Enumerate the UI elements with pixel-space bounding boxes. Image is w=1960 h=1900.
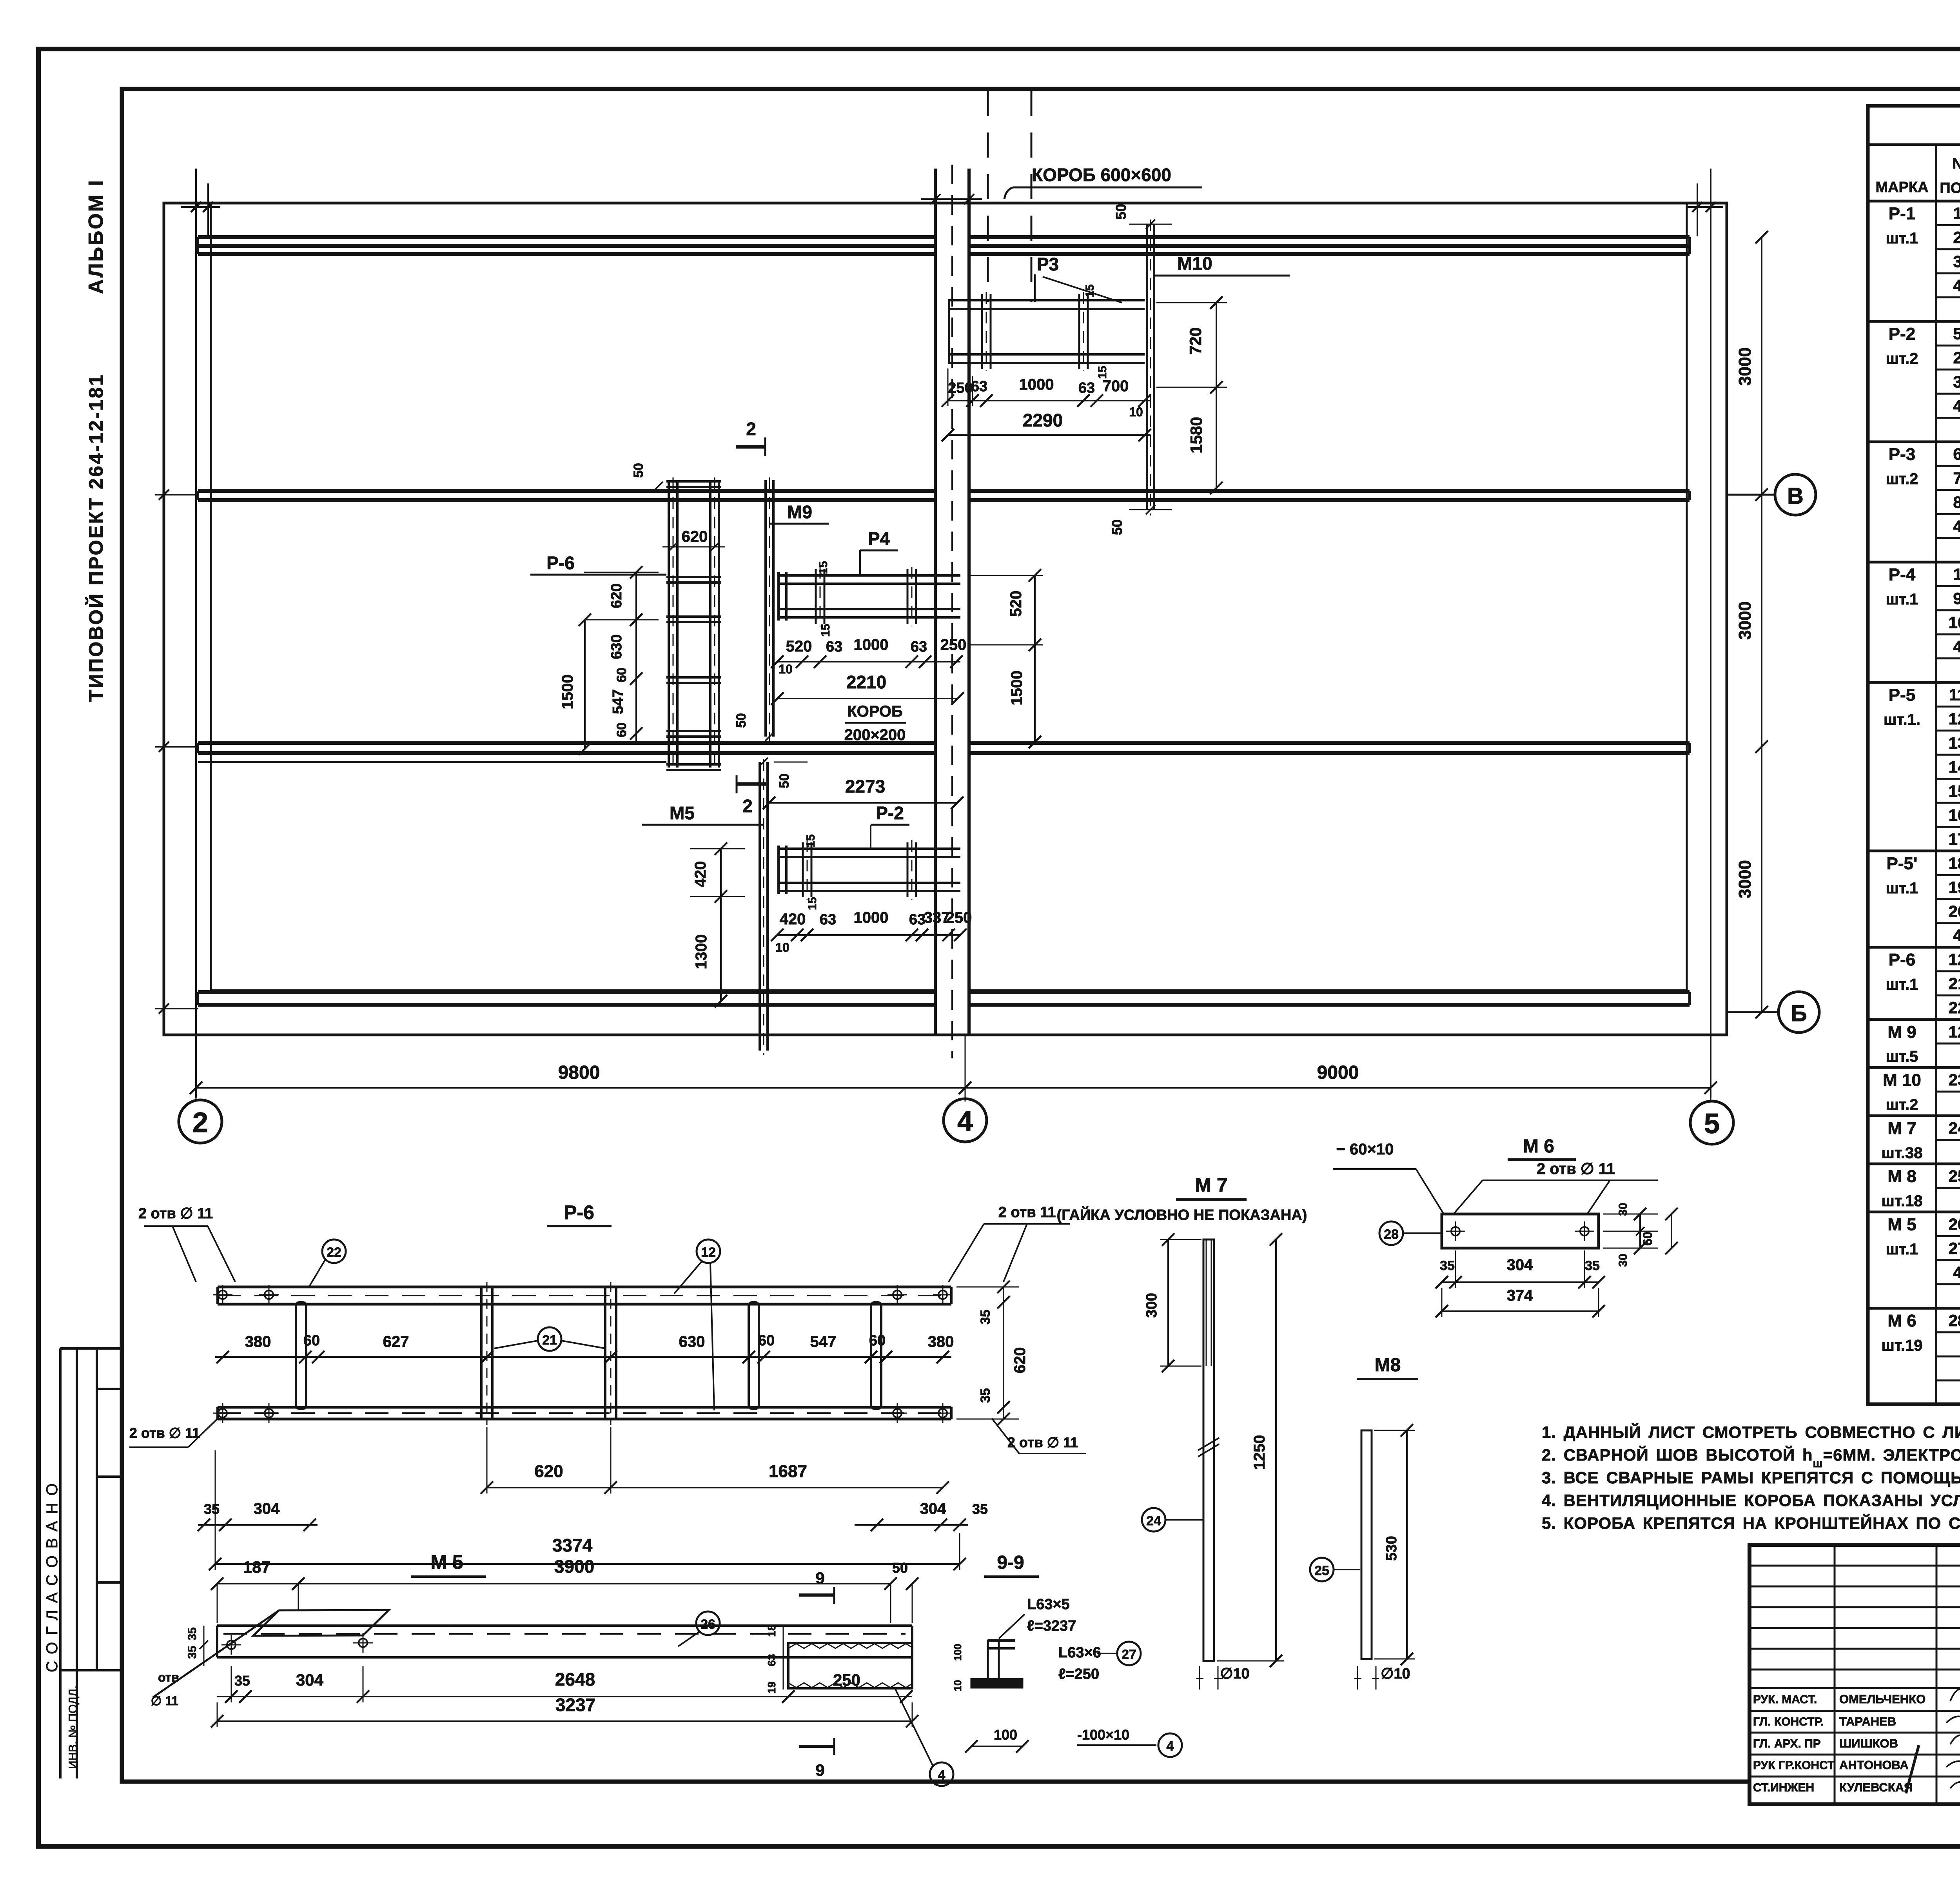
detail M7 rod — [1203, 1239, 1214, 1661]
svg-text:28: 28 — [1384, 1227, 1399, 1242]
svg-text:547: 547 — [610, 689, 626, 714]
frame R3 top chord — [948, 300, 1145, 309]
section 9-9 title — [984, 1552, 1039, 1577]
svg-text:М 6: М 6 — [1887, 1311, 1916, 1330]
svg-text:720: 720 — [1186, 327, 1205, 355]
svg-text:630: 630 — [608, 634, 625, 659]
column grid 4 — [921, 165, 982, 1058]
svg-text:5: 5 — [1953, 325, 1960, 343]
svg-text:250: 250 — [833, 1671, 860, 1689]
svg-text:Б: Б — [1791, 1001, 1807, 1026]
label korob 200x200 — [844, 703, 906, 744]
svg-text:17: 17 — [1949, 830, 1960, 848]
detail R-6 top chord — [218, 1287, 951, 1304]
frame R4 top chord — [777, 575, 960, 584]
R-2 left dims 420 1300 — [690, 842, 745, 1007]
svg-text:304: 304 — [296, 1671, 324, 1689]
svg-text:3900: 3900 — [554, 1556, 594, 1577]
svg-text:Р-6: Р-6 — [546, 553, 575, 573]
svg-text:4. ВЕНТИЛЯЦИОННЫЕ КОРОБА: 4. ВЕНТИЛЯЦИОННЫЕ КОРОБА ПОКАЗАНЫ УСЛОВН… — [1542, 1491, 1960, 1510]
svg-text:РУК ГР.КОНСТ: РУК ГР.КОНСТ — [1753, 1759, 1835, 1772]
svg-text:3237: 3237 — [555, 1695, 595, 1715]
svg-text:9: 9 — [815, 1569, 824, 1587]
svg-text:М8: М8 — [1375, 1355, 1401, 1376]
margin text: soglasovano — [44, 1476, 61, 1672]
svg-text:420: 420 — [692, 861, 709, 887]
svg-text:3: 3 — [1953, 252, 1960, 271]
svg-text:М 9: М 9 — [1887, 1022, 1916, 1042]
detail M5 left dims 35 35 — [186, 1626, 208, 1666]
svg-text:ОМЕЛЬЧЕНКО: ОМЕЛЬЧЕНКО — [1839, 1692, 1926, 1706]
svg-text:35: 35 — [204, 1501, 220, 1517]
label R-6 in plan — [530, 553, 666, 575]
svg-text:380: 380 — [928, 1333, 954, 1350]
detail M6 circle 28 — [1379, 1221, 1442, 1245]
dim 50 top of M5 — [759, 758, 808, 788]
svg-text:250: 250 — [948, 380, 973, 396]
svg-text:10: 10 — [952, 1680, 964, 1691]
svg-text:10: 10 — [1949, 613, 1960, 632]
margin text: inv no podl — [67, 1686, 80, 1769]
svg-text:КОРОБ 600×600: КОРОБ 600×600 — [1032, 165, 1171, 185]
svg-text:50: 50 — [777, 773, 792, 788]
tie M10 vertical — [1147, 220, 1154, 515]
detail R-6 right dims 35 620 35 — [956, 1281, 1029, 1425]
svg-text:4: 4 — [1953, 397, 1960, 415]
svg-text:Р-2: Р-2 — [876, 803, 904, 823]
svg-text:12: 12 — [1949, 950, 1960, 969]
detail M7 note gaika — [1057, 1206, 1307, 1223]
frame R-2 post 2 — [907, 840, 916, 900]
svg-text:63: 63 — [911, 639, 927, 655]
R-6 left dim chain — [584, 566, 659, 745]
svg-text:1500: 1500 — [559, 675, 576, 710]
detail M5 hole label otv 11 — [151, 1670, 179, 1708]
svg-text:547: 547 — [810, 1333, 837, 1350]
tie M5 vertical — [760, 759, 768, 1055]
svg-text:1000: 1000 — [854, 636, 889, 653]
svg-text:15: 15 — [817, 561, 830, 574]
svg-text:− 60×10: − 60×10 — [1336, 1141, 1394, 1158]
svg-text:-100×10: -100×10 — [1077, 1727, 1129, 1743]
svg-text:13: 13 — [1949, 734, 1960, 752]
label R-2 — [871, 803, 909, 849]
margin text: typical project 264-12-181 — [85, 373, 107, 702]
plan inner wall line right — [1686, 203, 1688, 990]
svg-text:27: 27 — [1949, 1239, 1960, 1258]
spec table header — [1868, 145, 1960, 1404]
margin signature strip table — [60, 1348, 122, 1778]
detail M8 diameter label — [1354, 1666, 1410, 1689]
detail R-6 bottom chord — [218, 1407, 951, 1419]
margin text: album I — [85, 179, 107, 294]
svg-text:25: 25 — [1949, 1167, 1960, 1185]
svg-text:50: 50 — [1109, 519, 1125, 535]
svg-text:5: 5 — [1704, 1108, 1720, 1140]
svg-text:Р-6: Р-6 — [1889, 950, 1915, 969]
svg-text:9000: 9000 — [1317, 1062, 1359, 1083]
svg-text:12: 12 — [1949, 710, 1960, 728]
svg-text:3000: 3000 — [1735, 347, 1755, 386]
svg-text:4: 4 — [1167, 1739, 1174, 1754]
svg-text:100: 100 — [952, 1644, 964, 1660]
svg-text:4: 4 — [938, 1768, 946, 1783]
frame R-2 post 1 — [803, 840, 811, 900]
svg-text:15: 15 — [1096, 366, 1109, 379]
detail M5 bottom dims 35 304 2648 250 — [217, 1666, 913, 1703]
frame R3 left end cap — [948, 300, 950, 363]
svg-text:26: 26 — [701, 1617, 715, 1632]
svg-text:4: 4 — [1953, 926, 1960, 945]
svg-text:М 7: М 7 — [1195, 1174, 1227, 1196]
svg-text:3. ВСЕ СВАРНЫЕ РАМЫ КРЕП: 3. ВСЕ СВАРНЫЕ РАМЫ КРЕПЯТСЯ С ПОМОЩЬЮ Т… — [1542, 1468, 1960, 1487]
svg-text:шт.5: шт.5 — [1886, 1048, 1918, 1065]
svg-text:21: 21 — [1949, 974, 1960, 993]
svg-text:12: 12 — [1949, 1022, 1960, 1041]
tie M9 vertical — [766, 477, 773, 741]
svg-text:9: 9 — [815, 1761, 824, 1779]
detail M7 break marks — [1198, 1438, 1219, 1457]
svg-text:520: 520 — [1007, 591, 1025, 617]
svg-text:4: 4 — [957, 1106, 973, 1137]
svg-text:35: 35 — [186, 1646, 199, 1659]
svg-text:2648: 2648 — [555, 1669, 595, 1689]
svg-text:Р-5: Р-5 — [1889, 686, 1915, 705]
beam row mid extra lower edge left part — [198, 761, 666, 763]
svg-text:ШИШКОВ: ШИШКОВ — [1839, 1737, 1898, 1750]
dimension line 3000x3 right side — [1735, 231, 1768, 1012]
R-2 dim 2273 — [763, 776, 964, 809]
svg-text:шт.1: шт.1 — [1886, 880, 1918, 897]
svg-text:60: 60 — [758, 1332, 775, 1349]
svg-text:300: 300 — [1143, 1293, 1160, 1317]
svg-text:1300: 1300 — [693, 935, 710, 969]
label M9 — [770, 502, 829, 524]
detail M7 circle 24 — [1142, 1508, 1203, 1532]
svg-text:30: 30 — [1617, 1203, 1630, 1216]
svg-text:Р-3: Р-3 — [1889, 445, 1915, 464]
svg-text:250: 250 — [940, 636, 967, 653]
svg-text:7: 7 — [1953, 469, 1960, 487]
detail R-6 corner holes — [213, 1285, 953, 1423]
frame R4 post 1 — [816, 567, 824, 626]
detail M6 right dims 30 60 30 — [1603, 1203, 1678, 1267]
svg-text:63: 63 — [826, 639, 842, 655]
svg-text:60: 60 — [869, 1332, 886, 1349]
grid circle B — [1779, 992, 1819, 1033]
svg-text:шт.1: шт.1 — [1886, 591, 1918, 608]
svg-text:1: 1 — [1953, 204, 1960, 223]
dim 50 bottom M9 — [734, 713, 774, 741]
detail M7 diameter label — [1196, 1666, 1250, 1689]
svg-text:200×200: 200×200 — [844, 726, 906, 744]
svg-text:25: 25 — [1314, 1563, 1329, 1578]
frame R-6 left chord — [669, 477, 677, 770]
beam row G (top) — [198, 237, 1690, 254]
svg-text:9: 9 — [1953, 589, 1960, 608]
R-6 dim 1500 — [559, 613, 591, 755]
detail M6 label -60x10 — [1333, 1141, 1444, 1214]
svg-text:2 отв ∅ 11: 2 отв ∅ 11 — [138, 1205, 213, 1222]
svg-text:10: 10 — [779, 662, 793, 676]
title block signature labels — [1753, 1692, 1926, 1794]
svg-text:КОРОБ: КОРОБ — [847, 703, 903, 720]
svg-text:М 7: М 7 — [1887, 1119, 1916, 1138]
svg-text:М 8: М 8 — [1887, 1167, 1916, 1186]
svg-text:ГЛ. АРХ. ПР: ГЛ. АРХ. ПР — [1753, 1737, 1821, 1750]
title block frame — [1749, 1545, 1960, 1804]
spec table data rows — [1868, 204, 1960, 1381]
svg-text:374: 374 — [1507, 1287, 1533, 1304]
detail M5 top dims 187 3900 50 — [211, 1556, 918, 1623]
svg-text:АНТОНОВА: АНТОНОВА — [1839, 1758, 1909, 1772]
svg-text:Р3: Р3 — [1037, 254, 1059, 274]
detail M7 dim 300 — [1143, 1233, 1201, 1372]
detail M5 gusset parallelogram — [153, 1610, 389, 1697]
detail M6 bottom dims 35 304 35 — [1436, 1250, 1605, 1288]
grid circle 2 — [179, 1100, 222, 1143]
svg-text:4: 4 — [1953, 517, 1960, 535]
svg-text:620: 620 — [608, 583, 625, 608]
svg-text:ПОЗ.: ПОЗ. — [1940, 180, 1960, 196]
grid line 5 — [1710, 169, 1711, 1098]
detail R-6 title — [547, 1201, 612, 1226]
svg-text:24: 24 — [1146, 1513, 1161, 1528]
svg-text:24: 24 — [1949, 1119, 1960, 1137]
svg-text:ГЛ. КОНСТР.: ГЛ. КОНСТР. — [1753, 1715, 1824, 1728]
svg-text:В: В — [1787, 483, 1804, 509]
svg-text:2 отв 11: 2 отв 11 — [998, 1204, 1056, 1221]
svg-text:∅10: ∅10 — [1381, 1666, 1410, 1682]
svg-text:20: 20 — [1949, 902, 1960, 920]
svg-text:21: 21 — [542, 1333, 557, 1348]
svg-text:63: 63 — [909, 911, 926, 928]
detail M5 circle 4 — [895, 1688, 953, 1786]
svg-text:3: 3 — [1953, 373, 1960, 391]
grid circle 5 — [1690, 1101, 1733, 1144]
svg-text:шт.1: шт.1 — [1886, 1241, 1918, 1258]
svg-text:520: 520 — [786, 638, 812, 655]
svg-text:63: 63 — [971, 378, 987, 395]
svg-text:шт.2: шт.2 — [1886, 350, 1918, 367]
svg-text:60: 60 — [303, 1332, 320, 1349]
section 9-9 circle 4 — [1158, 1733, 1182, 1757]
detail M5 circle 26 — [678, 1611, 720, 1646]
dim 50 top R-6 — [631, 463, 663, 490]
frame R-2 top chord — [777, 849, 960, 857]
detail R-6 circle 21 — [494, 1327, 606, 1351]
svg-text:Р-5': Р-5' — [1887, 854, 1918, 873]
svg-text:35: 35 — [978, 1388, 993, 1403]
svg-text:2290: 2290 — [1023, 410, 1063, 430]
label R3 — [1035, 254, 1122, 303]
detail R-6 circle 12 — [674, 1239, 720, 1410]
detail M8 rod — [1361, 1430, 1372, 1659]
svg-text:63: 63 — [766, 1654, 778, 1666]
svg-text:шт.18: шт.18 — [1881, 1192, 1922, 1210]
svg-text:шт.19: шт.19 — [1881, 1337, 1922, 1354]
svg-text:63: 63 — [1078, 380, 1095, 396]
detail M6 title — [1508, 1136, 1576, 1160]
R4 dim row 520 63 1000 63 250 — [771, 636, 966, 676]
beam row B (bottom) — [198, 992, 1690, 1005]
svg-text:L63×5: L63×5 — [1027, 1596, 1070, 1613]
detail M5 dim 3237 — [211, 1695, 918, 1728]
title block left signature grid — [1749, 1545, 1960, 1804]
grid stub ticks at left outline — [155, 490, 198, 1014]
svg-text:50: 50 — [892, 1560, 908, 1576]
dim 50 top of M10 — [1113, 204, 1172, 229]
dimension line 9800 9000 — [190, 1035, 1717, 1102]
label korob 600x600 — [1004, 165, 1202, 199]
svg-text:28: 28 — [1949, 1311, 1960, 1330]
svg-text:620: 620 — [1011, 1347, 1029, 1374]
R3 dim 2290 — [942, 410, 1151, 441]
R-2 weld 15 marks — [804, 834, 819, 910]
section 9-9 labels — [952, 1596, 1156, 1753]
grid line V extension — [1727, 488, 1775, 501]
R-6 width dim 620 — [662, 528, 725, 552]
svg-text:100: 100 — [994, 1727, 1017, 1743]
R3 right dims 720 1580 — [1156, 296, 1227, 494]
svg-text:2 отв ∅ 11: 2 отв ∅ 11 — [129, 1425, 200, 1441]
svg-text:2 отв ∅ 11: 2 отв ∅ 11 — [1007, 1434, 1078, 1450]
grid 2 top extension lines — [181, 183, 220, 236]
R-2 dim row 420 63 1000 63 337 250 — [771, 909, 972, 955]
specification table frame — [1868, 106, 1960, 1404]
svg-text:ℓ=3237: ℓ=3237 — [1027, 1618, 1076, 1634]
svg-text:35: 35 — [1585, 1258, 1600, 1273]
detail M6 plate — [1442, 1214, 1599, 1248]
svg-text:2: 2 — [1953, 348, 1960, 367]
svg-text:ТИПОВОЙ ПРОЕКТ 264-12-181: ТИПОВОЙ ПРОЕКТ 264-12-181 — [85, 373, 107, 702]
svg-text:М10: М10 — [1177, 253, 1212, 274]
svg-text:700: 700 — [1103, 377, 1129, 395]
svg-text:1000: 1000 — [854, 909, 889, 926]
frame R-2 bottom chord — [777, 883, 960, 891]
svg-text:63: 63 — [820, 911, 836, 928]
duct korob 600x600 dashed lines — [988, 91, 1031, 302]
svg-text:22: 22 — [1949, 998, 1960, 1017]
svg-text:4: 4 — [1953, 276, 1960, 295]
label M5 in plan — [642, 803, 764, 825]
frame R3 post 2 — [1079, 292, 1088, 371]
svg-text:МАРКА: МАРКА — [1875, 179, 1928, 196]
svg-text:РУК. МАСТ.: РУК. МАСТ. — [1753, 1693, 1817, 1706]
section mark 2 bottom — [737, 775, 766, 816]
svg-text:11: 11 — [1949, 686, 1960, 704]
svg-text:420: 420 — [780, 911, 806, 928]
svg-text:шт.2: шт.2 — [1886, 470, 1918, 488]
svg-text:М 5: М 5 — [1887, 1215, 1916, 1234]
svg-text:620: 620 — [682, 528, 708, 545]
detail M5 end fitting — [788, 1643, 912, 1688]
section 9-9 circle 27 — [1097, 1642, 1141, 1665]
svg-text:СТ.ИНЖЕН: СТ.ИНЖЕН — [1753, 1781, 1814, 1794]
svg-text:N: N — [1952, 156, 1960, 172]
svg-text:187: 187 — [243, 1558, 270, 1576]
svg-text:60: 60 — [614, 668, 629, 682]
svg-text:15: 15 — [806, 897, 819, 910]
svg-text:М9: М9 — [787, 502, 812, 522]
beam row V — [198, 491, 1690, 500]
detail M6 label 2 otv — [1454, 1160, 1658, 1214]
svg-text:10: 10 — [1129, 405, 1143, 419]
svg-text:50: 50 — [1113, 204, 1129, 220]
section 9-9 drawing — [971, 1640, 1022, 1688]
svg-text:отв: отв — [158, 1670, 179, 1684]
plan inner wall line bottom — [211, 989, 1687, 991]
svg-text:6: 6 — [1953, 445, 1960, 463]
frame R-6 rungs — [666, 481, 721, 770]
svg-text:304: 304 — [1507, 1256, 1533, 1274]
svg-text:8: 8 — [1953, 493, 1960, 512]
detail M6 holes — [1446, 1221, 1594, 1241]
svg-text:15: 15 — [804, 834, 817, 847]
R3 dim row 250 63 1000 63 700 — [942, 368, 1151, 419]
frame R4 post 2 — [907, 567, 916, 626]
svg-text:630: 630 — [679, 1333, 705, 1350]
svg-text:М 10: М 10 — [1883, 1071, 1921, 1090]
grid circle 4 — [944, 1099, 987, 1142]
detail R-6 posts — [296, 1282, 881, 1425]
detail R-6 dim 3374 — [209, 1450, 966, 1570]
svg-text:2: 2 — [192, 1107, 208, 1138]
svg-text:L63×6: L63×6 — [1058, 1644, 1101, 1661]
grid line 2 — [195, 169, 197, 1098]
svg-text:35: 35 — [972, 1501, 988, 1517]
svg-text:СОГЛАСОВАНО: СОГЛАСОВАНО — [44, 1476, 61, 1672]
title block slash mark — [1906, 1745, 1919, 1793]
svg-text:530: 530 — [1383, 1536, 1400, 1561]
beam row mid — [198, 743, 1690, 753]
plan inner wall line left — [210, 203, 212, 990]
svg-text:50: 50 — [734, 713, 749, 728]
svg-text:2: 2 — [742, 796, 753, 816]
label M10 — [1155, 253, 1290, 276]
detail M5 section marks 9 — [799, 1569, 834, 1779]
frame R-2 left end cap — [779, 846, 786, 894]
svg-text:шт.38: шт.38 — [1881, 1144, 1922, 1161]
grid 5 top extension lines — [1686, 183, 1723, 236]
svg-text:19: 19 — [766, 1681, 778, 1693]
svg-text:1500: 1500 — [1008, 671, 1025, 706]
svg-text:шт.1: шт.1 — [1886, 230, 1918, 247]
svg-text:4: 4 — [1953, 637, 1960, 656]
svg-text:5. КОРОБА КРЕПЯТСЯ НА КРО: 5. КОРОБА КРЕПЯТСЯ НА КРОНШТЕЙНАХ ПО СЕР… — [1542, 1513, 1960, 1532]
detail M6 dim 374 — [1436, 1287, 1605, 1317]
svg-text:Р-1: Р-1 — [1889, 204, 1915, 223]
grid line B extension — [1727, 1006, 1779, 1018]
svg-text:шт.1.: шт.1. — [1884, 711, 1920, 728]
dim 50 bottom of M10 — [1109, 505, 1172, 535]
svg-text:2210: 2210 — [846, 672, 886, 692]
frame R4 left end cap — [779, 572, 786, 621]
svg-text:304: 304 — [254, 1500, 280, 1517]
detail R-6 dim 620 1687 — [481, 1427, 949, 1494]
svg-text:16: 16 — [1949, 806, 1960, 824]
svg-text:4: 4 — [1953, 1263, 1960, 1281]
detail M8 title — [1357, 1355, 1418, 1379]
detail M8 dim 530 — [1374, 1424, 1415, 1665]
title block signatures squiggles — [1946, 1689, 1960, 1791]
detail M7 title — [1176, 1174, 1247, 1200]
frame R4 bottom chord — [777, 609, 960, 617]
svg-text:60: 60 — [1641, 1232, 1655, 1246]
svg-text:∅10: ∅10 — [1220, 1666, 1249, 1682]
detail M5 title — [411, 1551, 486, 1577]
svg-text:9-9: 9-9 — [997, 1552, 1024, 1573]
